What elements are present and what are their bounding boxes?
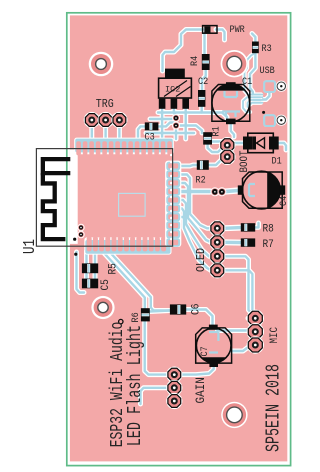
wire mod pad to R5 a <box>85 251 87 263</box>
resistor R3 <box>252 42 259 54</box>
wire bus row2 <box>150 117 176 120</box>
header MIC pin 1 <box>247 310 264 327</box>
header GAIN pin 2 <box>166 380 182 396</box>
wire D1 right stub <box>279 143 286 150</box>
wire C2 down <box>200 107 202 113</box>
wire R8 right stub <box>255 223 258 227</box>
header GAIN pin 1 <box>166 367 182 383</box>
board edge (Edge.Cuts) <box>67 13 291 466</box>
svg-text:GAIN: GAIN <box>193 377 208 403</box>
module edge via dots <box>170 154 173 241</box>
wire diag to R6 <box>105 254 145 309</box>
wire BOOT to D1 <box>233 142 243 144</box>
mounting hole H1 <box>89 52 114 77</box>
silkscreen ring <box>119 319 123 323</box>
wire mod pad7 stub <box>179 217 185 224</box>
capacitor C1 <box>212 82 250 124</box>
wire usb pin bundle C <box>248 100 262 107</box>
wire OLED p2 to R7 <box>224 241 241 245</box>
svg-text:C7: C7 <box>199 346 211 356</box>
resistor R5 <box>82 263 98 273</box>
svg-text:C1: C1 <box>242 75 253 87</box>
antenna keepout <box>70 150 78 244</box>
wire TRG pin3 down <box>118 126 120 140</box>
silkscreen dot a <box>73 238 76 241</box>
svg-text:D1: D1 <box>272 155 283 167</box>
header OLED pin 4 <box>209 262 225 278</box>
wire BOOT p1 feed a <box>209 140 221 142</box>
svg-text:R3: R3 <box>262 42 272 54</box>
wire R1 bottom to BOOT <box>208 145 222 152</box>
diode D1 <box>243 133 279 153</box>
svg-text:C2: C2 <box>198 75 208 87</box>
capacitor C4 <box>238 171 285 209</box>
wire mod pad2 to OLED p1 <box>179 175 211 229</box>
mounting hole H2 <box>221 50 248 77</box>
wire via pair to C4 pad <box>222 191 238 192</box>
wire R6 to C6 <box>150 311 170 312</box>
wire diag to C6 <box>111 254 170 311</box>
resistor R4 <box>202 54 210 70</box>
header OLED pin 3 <box>209 248 225 264</box>
wire PWR cathode stub <box>216 30 225 41</box>
via under IC2 b <box>172 122 180 130</box>
wire IC2 pin3 down <box>184 108 186 139</box>
svg-text:IC2: IC2 <box>165 85 180 95</box>
header BOOT pin 1 <box>219 137 235 153</box>
wire TRG pin1 down <box>91 126 93 140</box>
resistor R6 <box>141 308 150 321</box>
svg-text:MIC: MIC <box>268 327 280 344</box>
wire C1 bottom down <box>231 124 234 137</box>
svg-text:LED Flash Light: LED Flash Light <box>124 325 146 446</box>
header TRG pin 2 <box>98 112 114 128</box>
wire R3 top stub <box>252 34 255 42</box>
svg-text:C3: C3 <box>145 131 155 143</box>
svg-text:R5: R5 <box>107 263 120 274</box>
copper pour F.Cu <box>70 15 287 461</box>
wire C7 top to MIC p2 <box>218 331 256 332</box>
header GAIN pin 3 <box>166 393 182 409</box>
resistor R1 <box>203 132 212 144</box>
wire GAIN p2 left <box>141 388 169 404</box>
svg-text:C6: C6 <box>190 304 203 315</box>
wire via2 to R1 top <box>176 126 202 134</box>
svg-text:U1: U1 <box>21 239 39 254</box>
svg-text:C5: C5 <box>99 279 112 290</box>
capacitor C2 <box>198 90 205 107</box>
wire TRG pin2 down <box>104 126 106 140</box>
USB mount hole top <box>276 81 287 92</box>
wire C7 right to MIC p3 <box>232 345 256 351</box>
regulator IC2 <box>159 69 192 109</box>
header TRG pin 1 <box>84 112 100 128</box>
wire bus row1 <box>158 113 227 121</box>
U1 module thermal square <box>119 193 146 216</box>
trace clearance casings <box>77 30 287 405</box>
U1 module bottom pad row <box>84 236 171 254</box>
wire C6 to C7 <box>186 310 212 326</box>
capacitor C6 <box>170 304 186 314</box>
resistor R2 <box>197 160 209 170</box>
header OLED pin 1 <box>209 220 225 236</box>
wire mod pad3 to OLED p2 <box>179 183 211 242</box>
resistor R7 <box>241 238 255 246</box>
wire OLED p4 to MIC p2 <box>224 270 256 331</box>
resistor R8 <box>241 223 255 231</box>
U1 module top pad row <box>74 138 174 156</box>
USB mount hole bottom <box>276 115 287 126</box>
via near usb <box>262 111 265 114</box>
LED PWR <box>203 26 217 34</box>
wire mod pad to R5 b <box>94 251 96 263</box>
svg-text:R7: R7 <box>263 238 274 251</box>
USB connector shield pad top <box>263 80 275 92</box>
mounting hole H4 <box>221 402 247 428</box>
wire PWR anode to left <box>163 30 204 72</box>
svg-text:R6: R6 <box>129 312 141 322</box>
svg-text:SP5EIN 2018: SP5EIN 2018 <box>262 364 284 452</box>
wire OLED p3 to MIC p1 <box>224 256 256 318</box>
svg-text:R8: R8 <box>263 223 274 236</box>
capacitor C7 <box>196 325 232 367</box>
svg-text:PWR: PWR <box>230 23 246 35</box>
wire usb shield stub <box>263 92 269 100</box>
wire PWR to R4 <box>203 33 205 54</box>
wire R5 to C5 b <box>94 273 96 278</box>
via in module a <box>77 224 84 231</box>
wire mod bottom left v <box>77 252 85 293</box>
wire C3 right link <box>158 123 174 127</box>
header TRG pin 3 <box>111 112 127 128</box>
svg-text:R1: R1 <box>210 126 222 137</box>
wire usb pin bundle A <box>245 53 262 95</box>
mounting hole H3 <box>91 296 114 319</box>
wire mod pad6 to OLED p4 <box>179 209 211 271</box>
header MIC pin 2 <box>247 323 264 340</box>
svg-text:R2: R2 <box>196 174 206 186</box>
silkscreen dot b <box>74 253 77 256</box>
USB data pins <box>253 94 263 104</box>
wire bus row4 <box>146 132 194 134</box>
wire GAIN p1 to R6 <box>145 321 168 374</box>
module U1 antenna meander <box>43 159 70 239</box>
wire via to module <box>175 126 177 140</box>
wire MIC p1 feed <box>248 317 250 319</box>
svg-text:TRG: TRG <box>96 98 114 111</box>
USB connector shield pad bottom <box>263 114 275 126</box>
wire IC2 pin2 to via <box>174 108 176 118</box>
wire usb pin bundle B <box>243 97 261 112</box>
header OLED pin 2 <box>209 234 225 250</box>
wire mod pad4 to C4 <box>179 190 210 194</box>
wire R5 to C5 a <box>85 273 87 278</box>
wire C3 left down <box>138 126 145 139</box>
wire R4 to C2 <box>202 70 206 90</box>
capacitor C3 <box>145 122 159 130</box>
svg-text:BOOT: BOOT <box>239 150 251 172</box>
svg-text:OLED: OLED <box>195 248 208 272</box>
svg-text:R4: R4 <box>188 55 200 66</box>
via C4 pair b <box>217 187 226 196</box>
wire IC2 pin1 down <box>161 108 163 139</box>
header BOOT pin 2 <box>219 149 235 165</box>
module U1 outline <box>36 149 172 247</box>
wire module to R2 <box>179 165 197 166</box>
via C4 pair a <box>210 187 219 196</box>
wire usb pin bundle D <box>250 103 261 105</box>
capacitor C5 <box>82 279 98 289</box>
via in module b <box>77 231 84 238</box>
wire R2 right to BOOT p2 <box>209 157 226 165</box>
wire C7 bottom to GAIN p1 <box>180 366 214 375</box>
wire mod pad5 to OLED p3 <box>179 200 211 256</box>
svg-text:USB: USB <box>260 64 276 76</box>
U1 module right pad column <box>165 161 181 247</box>
wire OLED p1 to R8 <box>224 226 241 230</box>
wire R3 down to USB <box>250 53 255 95</box>
header MIC pin 3 <box>247 336 264 353</box>
svg-text:C4: C4 <box>277 195 289 206</box>
via under IC2 a <box>172 114 180 122</box>
